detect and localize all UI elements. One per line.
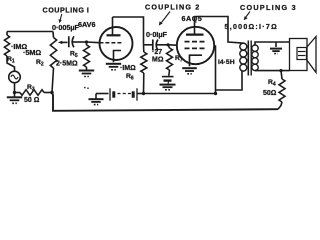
- capacitor bias under R7: [162, 77, 174, 85]
- wire C2 left: [144, 44, 153, 46]
- 6AQ5 cathode: [190, 55, 203, 66]
- node R4 junction: [279, 69, 282, 72]
- svg-text:·5MΩ: ·5MΩ: [23, 48, 41, 57]
- wire 6AV6 plate to C2 node: [113, 17, 144, 45]
- svg-text:I4·5H: I4·5H: [218, 59, 235, 66]
- svg-text:COUPLING 2: COUPLING 2: [145, 3, 200, 12]
- transformer T1 primary: [239, 43, 247, 71]
- speaker cone: [307, 37, 317, 73]
- svg-text:·27: ·27: [152, 49, 162, 56]
- node input ground junction: [13, 91, 16, 94]
- battery cell B1: [110, 88, 114, 100]
- ground input: [7, 93, 22, 104]
- svg-text:·IMΩ: ·IMΩ: [120, 65, 136, 72]
- resistor R5 2·5MΩ grid leak: [84, 42, 90, 70]
- wire screen riser to primary bottom: [216, 71, 243, 90]
- svg-text:COUPLING I: COUPLING I: [43, 6, 90, 15]
- wire secondary top to speaker: [255, 42, 290, 45]
- svg-text:2·5MΩ: 2·5MΩ: [56, 61, 78, 68]
- resistor R7 ·27MΩ grid resistor: [167, 45, 173, 76]
- svg-text:0·0IµF: 0·0IµF: [146, 30, 168, 39]
- svg-text:6AV6: 6AV6: [78, 20, 95, 29]
- wire bottom return rail: [52, 93, 278, 111]
- capacitor C2 0·01µF coupling 2: [153, 40, 158, 51]
- svg-text:COUPLING 3: COUPLING 3: [240, 3, 297, 12]
- node screen riser rail junction: [214, 92, 217, 95]
- resistor R4 50Ω: [278, 71, 285, 110]
- 6AQ5 plate: [186, 17, 204, 35]
- node R3 R2 rail junction: [50, 91, 53, 94]
- arrow coupling 1: [59, 14, 62, 23]
- tube V1 6AV6 envelope: [100, 27, 133, 60]
- arrow coupling 2: [159, 12, 170, 26]
- wire C2 to 6AQ5 grid: [157, 44, 177, 46]
- resistor R6 ·1MΩ plate load: [141, 45, 147, 94]
- speaker frame: [290, 39, 308, 71]
- wire secondary bottom to speaker: [255, 70, 290, 72]
- svg-text:5,000Ω:I·7Ω: 5,000Ω:I·7Ω: [225, 24, 279, 31]
- arrow coupling 3: [244, 12, 250, 21]
- 6AQ5 screen lead riser: [214, 46, 216, 94]
- wire supply rail: [144, 93, 216, 95]
- transformer T1 core: [248, 41, 251, 76]
- svg-text:50 Ω: 50 Ω: [24, 97, 40, 104]
- node R6 rail junction: [142, 92, 145, 95]
- potentiometer R2 .5MΩ: [50, 32, 56, 93]
- resistor R3 50Ω: [15, 90, 53, 96]
- capacitor C1 0·005µF coupling 1: [69, 36, 74, 47]
- wiper arrow of R2 to C1: [58, 41, 68, 44]
- battery dashes: [118, 93, 131, 95]
- 6AQ5 grid 2 dashes: [185, 47, 205, 49]
- 6AV6 plate: [107, 17, 121, 35]
- svg-text:50Ω: 50Ω: [263, 90, 277, 97]
- svg-text:0·005µF: 0·005µF: [52, 23, 80, 32]
- wire battery to rail: [137, 93, 144, 95]
- AC signal source V1: [9, 71, 21, 83]
- ground on secondary top wire: [270, 42, 282, 54]
- wire top input rail: [7, 31, 53, 33]
- ground under R5: [79, 71, 94, 89]
- 6AV6 grid dashes: [100, 42, 122, 44]
- speaker voice coil: [297, 48, 307, 60]
- 6AV6 cathode: [114, 51, 122, 63]
- wire source to ground node: [14, 83, 16, 93]
- transformer T1 secondary: [252, 45, 258, 71]
- ground under 6AV6 cathode: [106, 64, 121, 70]
- ground under 6AQ5 cathode: [182, 68, 197, 74]
- resistor R1 1MΩ: [4, 32, 14, 72]
- svg-text:6AQ5: 6AQ5: [182, 14, 203, 23]
- ground battery negative: [89, 94, 104, 105]
- tube V2 6AQ5 envelope: [177, 27, 214, 64]
- node 6AQ5 grid junction: [166, 43, 169, 46]
- svg-text:MΩ: MΩ: [152, 57, 164, 64]
- wire ground to battery: [96, 93, 109, 95]
- wire junction to 6AV6 grid: [87, 41, 100, 44]
- 6AQ5 grid 1 dashes: [185, 41, 205, 43]
- wire C1 to grid junction: [73, 41, 87, 43]
- wire 6AQ5 plate to transformer: [195, 17, 240, 43]
- battery cell B2: [133, 88, 137, 100]
- label ·27 MΩ for R7: [152, 49, 164, 64]
- ground under R7 bias: [160, 85, 176, 90]
- node grid 6AV6 junction: [85, 40, 88, 43]
